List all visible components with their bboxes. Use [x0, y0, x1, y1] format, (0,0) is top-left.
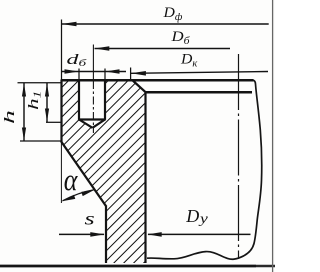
svg-text:s: s — [85, 208, 95, 228]
svg-text:D: D — [185, 206, 199, 226]
svg-text:h: h — [1, 110, 18, 124]
svg-text:у: у — [198, 212, 208, 227]
svg-text:α: α — [64, 164, 79, 198]
